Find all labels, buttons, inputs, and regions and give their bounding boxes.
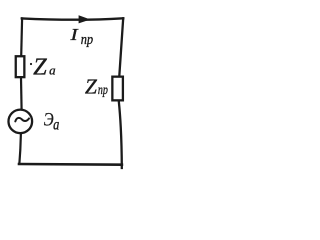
svg-text:а: а — [53, 116, 59, 134]
svg-text:а: а — [49, 63, 56, 78]
svg-text:Z: Z — [33, 53, 47, 80]
svg-text:Э: Э — [44, 109, 54, 130]
svg-text:пр: пр — [81, 32, 93, 48]
svg-text:I: I — [69, 26, 79, 44]
svg-text:Z: Z — [85, 75, 98, 99]
svg-text:пр: пр — [98, 83, 108, 98]
